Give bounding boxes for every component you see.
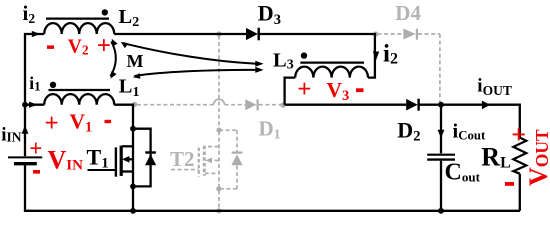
mutual coupling arc top arrowhead xyxy=(112,39,118,47)
node junction input xyxy=(22,102,28,108)
wire D2 to output corner xyxy=(419,105,520,138)
inductor L3 core bar xyxy=(300,61,364,63)
diode T2 body-diode cathode bar xyxy=(232,152,243,154)
mutual coupling curve upper right arrowhead xyxy=(255,61,263,67)
svg-text:+: + xyxy=(97,33,111,60)
mutual coupling curve lower left arrowhead xyxy=(133,73,141,79)
svg-text:+: + xyxy=(45,110,59,137)
node gray dot D4 tap at top corner xyxy=(373,31,378,36)
label battery minus xyxy=(33,170,40,174)
wire bottom rail xyxy=(24,210,520,212)
capacitor Cout top plate xyxy=(427,154,455,156)
mutual coupling arc L2-L1 xyxy=(110,42,115,77)
inductor L1 phase dot xyxy=(50,82,56,88)
mutual coupling curve upper (L2 to L3) xyxy=(123,43,259,64)
node output junction xyxy=(438,102,444,108)
diode D1 cathode bar xyxy=(257,99,259,110)
capacitor Cout bottom plate xyxy=(427,158,455,160)
transistor T1 source lead xyxy=(121,170,133,172)
arrow current iCout xyxy=(438,130,445,139)
wire T2 body-diode branch bottom xyxy=(219,166,237,189)
wire D4 branch down to output node xyxy=(439,34,441,103)
arrow current i1 xyxy=(29,102,38,108)
diode D4 triangle xyxy=(403,29,415,40)
mutual coupling arc bottom arrowhead xyxy=(111,71,117,79)
wire D4 input from top-rail corner xyxy=(378,33,404,35)
node T1 drain junction xyxy=(130,126,136,132)
svg-text:+: + xyxy=(297,76,311,103)
diode T2 body-diode triangle xyxy=(231,154,242,165)
transistor T1 gate lead xyxy=(88,169,116,171)
inductor L1 core bar xyxy=(49,89,111,91)
wire top rail L2 to D3 xyxy=(114,33,246,35)
diode D2 cathode bar xyxy=(417,99,419,111)
transistor T2 gate lead xyxy=(171,169,199,171)
label RL minus xyxy=(505,182,514,186)
transistor T2 body arrow xyxy=(205,158,212,164)
wire D1 input (dashed, from L1 output node) xyxy=(137,104,214,106)
svg-text:+: + xyxy=(511,120,526,149)
wire D4 cathode xyxy=(418,33,440,35)
wire T2 body-diode branch top xyxy=(219,130,237,152)
wire mid rail to D2 xyxy=(285,104,407,106)
node gray dot T2 source junction xyxy=(216,186,221,191)
transistor T2 channel bar xyxy=(203,146,206,176)
transistor T1 gate bar xyxy=(115,147,117,176)
arrow current i2 (top-left) xyxy=(32,31,41,37)
wire hop (D1 wire jumps T2 vertical) xyxy=(214,99,225,105)
inductor L2 winding xyxy=(44,23,114,34)
wire T2 drain below dot xyxy=(218,131,220,210)
diode D4 cathode bar xyxy=(416,29,418,40)
transistor T1 drain lead xyxy=(122,145,133,147)
inductor L3 winding xyxy=(295,67,368,78)
diode D2 triangle xyxy=(406,99,418,111)
wire Cout top xyxy=(440,105,442,154)
wire L1 input from junction xyxy=(25,104,44,106)
wire battery negative stub xyxy=(24,165,26,211)
inductor L1 winding xyxy=(44,94,114,105)
node gray dot T2 tap on top rail xyxy=(216,31,221,36)
mutual coupling curve lower right arrowhead xyxy=(255,67,263,73)
transistor T1 body arrow xyxy=(122,156,129,163)
transistor T2 source lead xyxy=(205,172,219,174)
transistor T2 drain lead xyxy=(205,146,219,148)
node gray dot on L1 output corner xyxy=(132,102,137,107)
resistor RL zigzag xyxy=(513,138,526,174)
battery VIN positive plate xyxy=(8,156,42,158)
svg-text:+: + xyxy=(29,136,42,161)
wire left vertical (source branch) xyxy=(25,34,44,156)
wire below load resistor xyxy=(519,174,521,211)
diode D1 triangle xyxy=(245,99,256,110)
transistor T2 gate bar xyxy=(198,148,200,177)
inductor L3 phase dot xyxy=(301,52,307,58)
svg-text:T2: T2 xyxy=(170,147,195,171)
inductor L2 phase dot xyxy=(102,9,108,15)
arrow current iOUT xyxy=(482,101,490,110)
wire D1 cathode to L3 input xyxy=(259,104,282,106)
wire top rail D3 to corner and down to L3 xyxy=(259,34,375,78)
battery VIN negative plate xyxy=(14,162,37,165)
svg-text:D4: D4 xyxy=(395,1,421,25)
transistor T1 body line xyxy=(128,158,133,160)
mutual coupling curve lower (L1 to L3) xyxy=(134,70,258,76)
arrow current i2 (right, down) xyxy=(373,52,379,61)
label V2 minus xyxy=(47,45,54,49)
transistor T1 channel bar xyxy=(120,146,123,176)
mutual coupling curve upper left arrowhead xyxy=(121,42,128,48)
wire D1 anode stub xyxy=(225,104,246,106)
node T1 source junction xyxy=(130,184,136,190)
node T1 on bottom rail xyxy=(130,208,136,214)
node gray dot T2 drain xyxy=(216,127,221,132)
node gray dot T2 on bottom rail xyxy=(216,208,221,213)
node Cout on bottom rail xyxy=(438,208,444,214)
inductor L2 core bar xyxy=(46,18,109,20)
wire L1 output to T1 drain xyxy=(114,105,133,211)
arrow current iIN xyxy=(22,125,29,134)
diode T1 body-diode cathode bar xyxy=(145,151,156,153)
wire T1 body-diode branch xyxy=(133,129,151,187)
diode T1 body-diode triangle xyxy=(145,154,156,165)
diode D3 cathode bar xyxy=(258,28,260,41)
wire Cout bottom xyxy=(440,161,442,211)
node gray dot on L3 input xyxy=(280,103,285,108)
wire T2 drain from top rail xyxy=(218,36,220,129)
label V1 minus xyxy=(105,120,112,123)
label V3 minus xyxy=(356,88,364,92)
diode D3 triangle xyxy=(246,28,258,40)
svg-text:M: M xyxy=(127,51,144,71)
wire L3 left end down to mid rail xyxy=(285,78,296,105)
transistor T2 body line xyxy=(210,159,219,161)
